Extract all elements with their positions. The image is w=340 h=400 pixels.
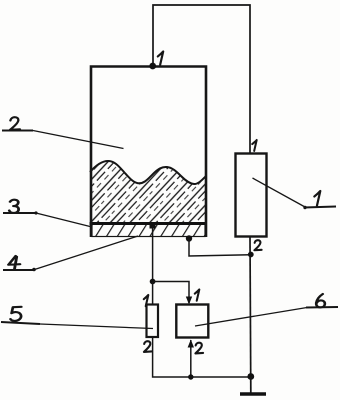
label 1 (tank top node) — [158, 52, 163, 65]
electrode contact node on strip — [150, 223, 156, 229]
wire: strip node down to junction — [152, 226, 154, 282]
wire: junction to block 6 (with corner) — [153, 282, 189, 304]
wire: block 6 bottom to bus — [190, 340, 192, 377]
leader for label 6 — [195, 308, 307, 327]
junction node — [150, 279, 156, 285]
wire: tank top node up, across, down to block 1 — [153, 5, 250, 153]
pin label 1 (top of U1) — [252, 140, 256, 151]
wire: block 5 bottom to bus — [153, 337, 251, 377]
label 4 (left, with underline and leader) — [3, 236, 138, 271]
label 2 (left, with underline and leader) — [2, 117, 124, 148]
wire: under-strip node to right bus — [189, 239, 251, 257]
junction node on right wire — [248, 252, 254, 258]
wire: U1 bottom down to ground bus — [249, 237, 252, 394]
node at tank top — [149, 63, 156, 70]
pin label 1 (top of block 5) — [144, 295, 149, 306]
leader for label 1 (right) — [253, 178, 306, 207]
block 6 (square) — [176, 305, 208, 338]
tank (vessel walls) — [91, 67, 206, 238]
label 3 (left, with underline and leader) — [3, 200, 92, 227]
label 5 (left, with underline) — [1, 307, 40, 324]
junction node on bus (block 6 wire) — [188, 374, 193, 379]
material surface (wavy line) — [90, 161, 206, 184]
leader for label 5 — [40, 324, 153, 329]
pin label 1 (top of block 6) — [195, 290, 200, 301]
pin label 2 (bottom of U1) — [254, 240, 261, 250]
arrow into top of block 6 — [186, 297, 192, 305]
ground — [240, 377, 266, 394]
pin label 2 (bottom of block 5) — [144, 341, 152, 352]
material 2 (hatched bulk in tank) — [90, 161, 206, 223]
arrow into bottom of block 6 — [188, 340, 194, 348]
block U1 (right rectangle) — [236, 154, 267, 237]
junction node bus meets ground wire — [247, 373, 254, 380]
electrode strip 3 (hatched bottom strip) — [90, 224, 207, 237]
block 5 (narrow rectangle) — [147, 305, 159, 338]
label 1 (right, with underline) — [303, 191, 336, 209]
wire: junction down to block 5 — [152, 282, 154, 305]
node under strip — [186, 235, 192, 241]
label 6 (right, with underline) — [306, 294, 338, 308]
pin label 2 (bottom of block 6) — [195, 343, 203, 354]
